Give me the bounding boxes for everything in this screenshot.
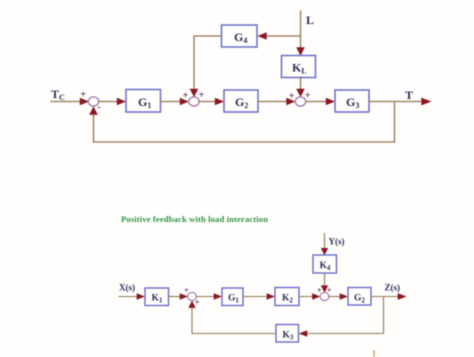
resistor G2 block bbox=[224, 90, 258, 112]
wire Tc input to summing junction S1 bbox=[51, 101, 82, 103]
wire feedback takeoff down to K3 bbox=[306, 297, 384, 334]
summing junction S2 bbox=[189, 97, 199, 106]
wire K1 to summing junction S4 bbox=[169, 296, 183, 298]
svg-text:TC: TC bbox=[51, 87, 65, 102]
svg-text:T: T bbox=[405, 88, 413, 102]
resistor K2 block bbox=[275, 288, 299, 306]
wire G1 to summing junction S2 bbox=[161, 101, 183, 103]
node stray mark bbox=[373, 351, 375, 357]
transistor KL block bbox=[282, 56, 316, 78]
wire L input down to KL bbox=[300, 11, 302, 49]
wire G2 bottom to output Z(s) bbox=[371, 296, 400, 298]
svg-text:Positive feedback with load in: Positive feedback with load interaction bbox=[121, 214, 268, 224]
summing junction S3 bbox=[295, 97, 305, 106]
wire L line tap into G4 bbox=[266, 35, 301, 37]
wire K2 to summing junction S5 bbox=[299, 296, 314, 298]
wire G3 to output T bbox=[369, 101, 424, 103]
resistor G3 block bbox=[335, 90, 369, 112]
summing junction S5 bbox=[320, 292, 329, 300]
wire K4 down into S5 bbox=[324, 273, 326, 286]
svg-text:+: + bbox=[195, 297, 200, 307]
wire S3 to G3 bbox=[306, 101, 328, 103]
wire K3 back up into S4 bbox=[192, 307, 276, 334]
wire KL down into summing junction S3 bbox=[300, 78, 302, 91]
svg-text:+: + bbox=[80, 90, 86, 101]
wire Y(s) down to K4 bbox=[324, 234, 326, 250]
resistor K1 block bbox=[145, 288, 169, 306]
transistor K4 block bbox=[313, 255, 337, 273]
svg-text:-: - bbox=[97, 102, 100, 113]
wire G4 output down into S2 bbox=[194, 36, 222, 90]
wire X(s) to K1 bbox=[119, 296, 139, 298]
summing junction S4 bbox=[188, 292, 197, 300]
resistor G2 bottom block bbox=[348, 288, 371, 306]
summing junction S1 bbox=[88, 97, 98, 106]
svg-text:Z(s): Z(s) bbox=[385, 283, 401, 293]
wire G1 bottom to K2 bbox=[243, 296, 269, 298]
wire S5 to G2 bottom bbox=[329, 296, 342, 298]
svg-text:+: + bbox=[183, 91, 189, 102]
svg-text:+: + bbox=[199, 90, 205, 101]
resistor G1 block bbox=[126, 90, 161, 113]
op-amp G4 block bbox=[222, 25, 258, 47]
wire S1 to G1 bbox=[99, 101, 119, 103]
transistor K3 block bbox=[276, 325, 299, 343]
svg-text:X(s): X(s) bbox=[119, 283, 135, 293]
wire G2 to S3 bbox=[258, 101, 289, 103]
wire feedback loop of top diagram bbox=[94, 102, 395, 143]
svg-text:Y(s): Y(s) bbox=[329, 237, 345, 247]
wire S2 to G2 bbox=[199, 101, 217, 103]
resistor G1 bottom block bbox=[222, 288, 243, 306]
wire S4 to G1 bottom bbox=[196, 296, 216, 298]
svg-text:L: L bbox=[306, 13, 314, 27]
